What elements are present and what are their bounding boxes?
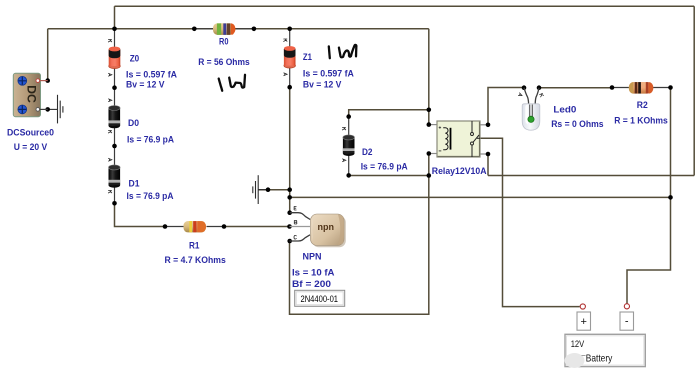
wire relay arm to battery plus xyxy=(480,138,580,306)
node junction relay NC bottom xyxy=(486,152,491,157)
diode D0 pin A xyxy=(108,99,112,102)
DC source minus terminal xyxy=(36,108,40,112)
svg-text:U = 20 V: U = 20 V xyxy=(14,142,48,153)
svg-text:DCSource0: DCSource0 xyxy=(7,128,54,139)
svg-text:Battery: Battery xyxy=(586,352,613,364)
node junction R0 left xyxy=(192,27,197,32)
component lead wires xyxy=(115,29,671,227)
wire D0 leads xyxy=(114,88,116,106)
node junction R2 left xyxy=(610,85,615,90)
wire top inner rail xyxy=(48,28,429,30)
wire relay NO drop xyxy=(487,154,489,176)
svg-text:2N4400-01: 2N4400-01 xyxy=(301,294,339,304)
svg-text:R = 4.7 KOhms: R = 4.7 KOhms xyxy=(165,255,226,266)
svg-text:R = 56 Ohms: R = 56 Ohms xyxy=(198,57,250,68)
wire emitter/ground vertical xyxy=(289,87,291,213)
handwritten mark 1W near Z1 xyxy=(329,45,357,58)
diode D0 xyxy=(109,106,121,129)
transistor Q1 pin B label xyxy=(294,220,297,224)
node junction ground 2 pin xyxy=(266,187,271,192)
node junction R1 right xyxy=(222,224,227,229)
zener Z1 xyxy=(284,46,296,68)
svg-text:Is = 76.9 pA: Is = 76.9 pA xyxy=(127,134,174,145)
battery minus pad xyxy=(620,312,634,330)
wire led rail with relay right-top drop xyxy=(488,88,524,125)
node junction collector net T xyxy=(427,173,432,178)
transistor Q1 body xyxy=(311,214,346,247)
node junction Z1 top xyxy=(287,27,292,32)
svg-text:R0: R0 xyxy=(219,36,229,47)
node junction DC source minus xyxy=(45,107,50,112)
node junction R2 right xyxy=(668,85,673,90)
svg-text:NPN: NPN xyxy=(303,252,322,263)
svg-text:Bf = 200: Bf = 200 xyxy=(292,279,331,290)
node junction collector C xyxy=(287,239,292,244)
zener Z0 pin A xyxy=(108,73,112,76)
node junction relay NO top xyxy=(486,123,491,128)
zener Z1 pin A xyxy=(284,73,288,76)
svg-text:Is = 10 fA: Is = 10 fA xyxy=(292,267,335,278)
wire rail1 right drop xyxy=(693,6,695,175)
relay K1 body xyxy=(437,121,480,157)
node junction D2 branch xyxy=(427,108,432,113)
node junction base B xyxy=(287,224,292,229)
DC source V1 body xyxy=(13,73,47,116)
wire R2 leads xyxy=(612,87,629,89)
diode D0 pin K xyxy=(108,131,112,134)
relay coil xyxy=(443,128,448,150)
node junction D2 cathode xyxy=(346,114,351,119)
svg-text:DC: DC xyxy=(25,85,39,103)
svg-text:D0: D0 xyxy=(128,118,139,129)
LED Led0 pin A label xyxy=(518,93,523,97)
node junction DC source plus xyxy=(45,78,50,83)
node junction emitter E xyxy=(287,210,292,215)
node junction Z1 anode xyxy=(287,85,292,90)
transistor Q1 pin C wire xyxy=(290,235,311,241)
node junction ground net xyxy=(287,187,292,192)
node junction ground net branch xyxy=(287,195,292,200)
battery body xyxy=(565,334,646,368)
wire Z1 leads xyxy=(289,29,291,48)
diode D1 pin A xyxy=(108,158,112,161)
node junction LED cathode xyxy=(537,85,542,90)
wire R1 to base xyxy=(224,226,290,228)
node junction minus net xyxy=(668,195,673,200)
svg-text:Z1: Z1 xyxy=(303,52,313,63)
LED Led0 pin K label xyxy=(539,93,544,97)
node junction R0 right xyxy=(252,27,257,32)
node junction R1 left xyxy=(163,224,168,229)
wire top outer rail xyxy=(115,5,695,7)
wire R1 leads xyxy=(165,226,184,228)
svg-text:npn: npn xyxy=(318,222,335,232)
LED Led0 body xyxy=(522,104,540,130)
wire ground2 stub xyxy=(259,189,290,191)
resistor R1 xyxy=(184,221,207,232)
zener Z0 pin K xyxy=(108,40,112,43)
svg-text:Is = 76.9 pA: Is = 76.9 pA xyxy=(127,191,174,202)
node junction LED anode xyxy=(522,85,527,90)
wire D2 leads xyxy=(348,117,350,136)
wire rail1 left drop xyxy=(114,6,116,29)
wire D2 top branch xyxy=(349,110,429,117)
wire R0 leads xyxy=(194,28,213,30)
svg-text:R2: R2 xyxy=(637,100,648,111)
node junction D2 anode xyxy=(346,173,351,178)
transistor Q1 pin B wire xyxy=(290,226,311,228)
LED Led0 lead K xyxy=(535,88,539,104)
diode D2 xyxy=(343,135,355,156)
svg-text:12V: 12V xyxy=(571,339,585,350)
ground near DC source xyxy=(48,95,63,124)
svg-text:+: + xyxy=(580,316,586,328)
diode D1 xyxy=(109,165,121,188)
ground near transistor xyxy=(253,175,268,204)
transistor Q1 pin C label xyxy=(294,235,297,239)
wire coil minus T to D2 bottom xyxy=(349,175,429,177)
node junction rail2 / Z0 top xyxy=(112,27,117,32)
battery plus pad xyxy=(577,312,591,330)
node junction relay coil plus xyxy=(427,122,432,127)
svg-text:D1: D1 xyxy=(129,178,141,189)
wire Z0 leads xyxy=(114,29,116,48)
svg-text:Led0: Led0 xyxy=(553,105,576,116)
transistor Q1 model box xyxy=(295,290,345,306)
resistor R0 xyxy=(213,23,235,35)
wire R2 right down and to battery minus xyxy=(627,88,671,304)
node junction D0 cathode / D1 anode xyxy=(112,144,117,149)
svg-text:Relay12V10A: Relay12V10A xyxy=(432,166,487,177)
svg-text:Bv = 12 V: Bv = 12 V xyxy=(126,80,165,91)
wire long horizontal to battery minus net xyxy=(290,196,671,198)
svg-text:R1: R1 xyxy=(189,241,200,252)
svg-text:Z0: Z0 xyxy=(130,54,140,65)
diode D1 pin K xyxy=(108,191,112,194)
zener Z0 xyxy=(109,47,121,69)
wire bottom of diode chain to R1 xyxy=(115,203,166,226)
LED Led0 lead A xyxy=(524,88,529,104)
diode D2 pin A xyxy=(342,159,346,162)
transistor Q1 pin E wire xyxy=(290,213,311,220)
svg-text:Is = 0.597 fA: Is = 0.597 fA xyxy=(303,68,354,79)
svg-text:-: - xyxy=(625,316,629,328)
node junction D1 cathode xyxy=(112,201,117,206)
svg-text:Is = 76.9 pA: Is = 76.9 pA xyxy=(361,162,408,173)
relay switch xyxy=(471,121,473,133)
battery plus terminal ring xyxy=(580,304,585,309)
node junction relay coil minus xyxy=(427,151,432,156)
battery minus terminal ring xyxy=(624,304,629,309)
wire DC plus drop xyxy=(47,29,49,81)
resistor R2 xyxy=(629,82,654,94)
svg-text:R = 1 KOhms: R = 1 KOhms xyxy=(614,116,668,127)
wire D1 leads xyxy=(114,146,116,166)
wire led K to R2 xyxy=(539,87,612,89)
handwritten mark 1W near R0 xyxy=(219,75,245,91)
svg-text:Bv = 12 V: Bv = 12 V xyxy=(303,79,342,90)
svg-text:D2: D2 xyxy=(362,147,373,158)
DC source screw top xyxy=(18,76,27,85)
DC source screw bottom xyxy=(18,105,27,114)
wire relay NO horizontal xyxy=(488,175,694,177)
svg-text:Rs = 0 Ohms: Rs = 0 Ohms xyxy=(551,119,603,130)
diode D2 pin K xyxy=(342,128,346,131)
wire rail2 right drop to coil plus xyxy=(428,29,430,125)
wire collector loop xyxy=(290,154,429,315)
node junction Z0 anode / D0 anode xyxy=(112,85,117,90)
transistor Q1 pin E label xyxy=(294,206,296,210)
DC source plus terminal xyxy=(36,79,40,83)
relay terminal stubs xyxy=(429,125,488,154)
zener Z1 pin K xyxy=(283,39,287,42)
